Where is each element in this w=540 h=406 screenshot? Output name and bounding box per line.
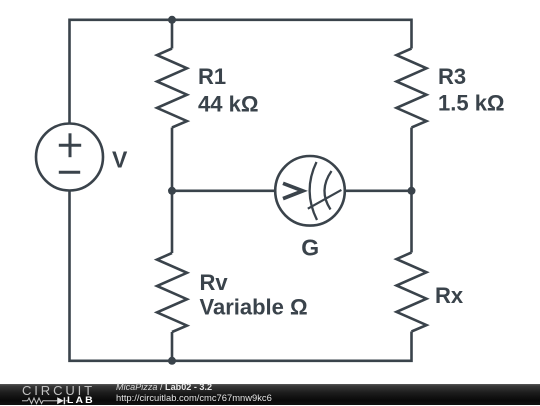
wire: left rail bottom (V- down to bottom rail): [70, 191, 173, 361]
wire: Rv bottom lead to bottom rail: [171, 332, 174, 361]
wire: Rx top lead from node C: [410, 191, 413, 253]
resistor R1 zigzag: [157, 49, 187, 128]
junction: node C dot at middle right: [408, 187, 416, 195]
CircuitLab logo: [21, 384, 23, 386]
svg-text:V: V: [112, 147, 128, 173]
svg-text:R1: R1: [198, 64, 226, 89]
svg-text:Rx: Rx: [435, 283, 464, 308]
wire: middle right segment node C (galvanometer to R3/Rx): [346, 190, 412, 193]
resistor Rx zigzag: [397, 253, 427, 332]
galvanometer G circle: [275, 156, 345, 226]
logo squiggle: wire after diode: [66, 399, 68, 401]
svg-text:1.5 kΩ: 1.5 kΩ: [438, 91, 505, 116]
svg-text:44 kΩ: 44 kΩ: [198, 91, 258, 116]
logo squiggle: diode triangle: [57, 397, 64, 404]
footer credit text line 1: [116, 382, 212, 392]
wire: middle left segment node B (R1 bottom to galvanometer): [172, 128, 275, 191]
logo squiggle: lead-in wire: [22, 399, 28, 401]
footer bar: [0, 384, 540, 405]
galvanometer G scale arc small: [324, 171, 331, 210]
wire: top rail node A (V+ to R3 top): [70, 20, 412, 124]
svg-text:Rv: Rv: [200, 270, 229, 295]
junction: node D dot at bottom: [168, 357, 176, 365]
logo squiggle: resistor zigzag: [28, 398, 46, 404]
logo squiggle: wire to diode: [45, 399, 57, 401]
footer credit text line 2: [116, 392, 272, 403]
wire: R3 bottom lead to node C: [410, 128, 413, 191]
wire: bottom rail node D (Rv bottom to Rx bottom): [172, 332, 412, 361]
svg-text:R3: R3: [438, 64, 466, 89]
junction: node B dot at middle left: [168, 187, 176, 195]
junction: node A dot at R1 top: [168, 16, 176, 24]
resistor R3 zigzag: [397, 49, 427, 128]
svg-text:Variable Ω: Variable Ω: [200, 295, 308, 320]
resistor Rv zigzag (variable): [157, 253, 187, 332]
wire: Rv top lead from node B: [171, 191, 174, 253]
voltage source V1 plus sign: [59, 133, 81, 157]
galvanometer G needle: [308, 190, 342, 209]
logo squiggle: diode bar: [63, 397, 65, 404]
svg-text:G: G: [301, 235, 319, 261]
voltage source V1 minus sign: [59, 171, 80, 174]
voltage source V1 circle: [36, 124, 103, 191]
galvanometer G scale arc large: [310, 162, 317, 220]
galvanometer G chevron pointer: [283, 183, 303, 198]
wire: R1 top lead from top rail: [171, 20, 174, 49]
